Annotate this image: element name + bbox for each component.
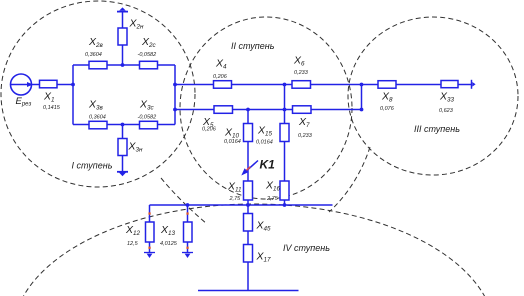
- svg-text:0,076: 0,076: [380, 106, 395, 112]
- extra dashed arc left: [161, 178, 207, 224]
- svg-text:II ступень: II ступень: [231, 41, 275, 51]
- ground X13: [182, 252, 193, 254]
- wire bridge bottom: [73, 124, 175, 126]
- branch X13: [187, 205, 189, 222]
- svg-text:0,0164: 0,0164: [224, 139, 241, 145]
- svg-text:2,75: 2,75: [266, 196, 279, 202]
- svg-text:X17: X17: [256, 251, 272, 264]
- resistor X33: [441, 81, 458, 88]
- svg-text:X3с: X3с: [139, 99, 155, 112]
- wire source to X1: [32, 84, 40, 86]
- bottom busbar: [198, 290, 299, 292]
- stage IV dashed circle: [13, 204, 495, 296]
- svg-text:X2с: X2с: [141, 36, 157, 49]
- svg-text:X12: X12: [125, 224, 141, 237]
- svg-text:X10: X10: [224, 127, 240, 140]
- svg-text:0,3604: 0,3604: [89, 115, 106, 121]
- svg-text:X2в: X2в: [88, 36, 104, 49]
- svg-text:0,233: 0,233: [294, 70, 309, 76]
- stage II top line: [175, 84, 362, 86]
- stage II bottom line: [175, 109, 362, 111]
- resistor X3в: [89, 121, 107, 129]
- branch X12: [149, 205, 151, 222]
- stage IV bus: [150, 204, 333, 206]
- end load arrow: [471, 80, 473, 89]
- resistor X2с: [140, 61, 158, 69]
- svg-text:12,5: 12,5: [127, 241, 139, 247]
- svg-text:X6: X6: [293, 55, 305, 68]
- svg-text:X3н: X3н: [128, 141, 144, 154]
- branch X45 X17: [247, 205, 249, 291]
- stage II dashed circle: [180, 17, 352, 199]
- ground X12: [144, 252, 155, 254]
- wire bridge right vertical: [174, 65, 176, 125]
- node at bridge left: [71, 83, 75, 87]
- resistor X8: [378, 81, 396, 89]
- svg-text:Eрез: Eрез: [16, 96, 32, 108]
- svg-text:I ступень: I ступень: [72, 161, 113, 171]
- branch X2н: [122, 45, 124, 65]
- wire bridge left vertical: [72, 65, 74, 125]
- resistor X2в: [89, 61, 107, 69]
- stage III line: [362, 84, 472, 86]
- svg-text:X33: X33: [439, 91, 455, 104]
- svg-text:K1: K1: [260, 158, 276, 172]
- wire X1 to bridge: [57, 84, 73, 86]
- stage III dashed circle: [348, 17, 518, 175]
- svg-text:X1: X1: [43, 91, 55, 104]
- svg-text:X13: X13: [160, 224, 176, 237]
- svg-text:0,623: 0,623: [439, 108, 454, 114]
- svg-text:X16: X16: [265, 180, 281, 193]
- vertical branch 2: X15, X16: [284, 85, 286, 206]
- svg-text:X8: X8: [381, 91, 393, 104]
- svg-text:X3в: X3в: [88, 99, 104, 112]
- svg-text:X2н: X2н: [129, 18, 145, 31]
- svg-text:0,206: 0,206: [213, 74, 228, 80]
- svg-text:0,233: 0,233: [298, 133, 313, 139]
- stage I dashed circle: [1, 1, 195, 187]
- junction dots stage II: [283, 83, 287, 87]
- svg-text:X11: X11: [227, 181, 242, 194]
- resistor X1: [40, 80, 58, 88]
- svg-text:-0,0582: -0,0582: [138, 115, 157, 121]
- resistor X3с: [140, 121, 158, 129]
- svg-text:0,1415: 0,1415: [43, 105, 61, 111]
- svg-text:-0,0582: -0,0582: [138, 52, 157, 58]
- source Eрез: [11, 74, 34, 95]
- svg-text:X7: X7: [298, 116, 310, 129]
- resistor X4: [214, 81, 232, 89]
- resistor X6: [292, 81, 311, 89]
- node bottom mid: [121, 123, 125, 127]
- svg-text:0,0164: 0,0164: [256, 140, 273, 146]
- svg-text:X45: X45: [256, 220, 272, 233]
- svg-text:IV ступень: IV ступень: [283, 243, 330, 253]
- svg-text:0,206: 0,206: [202, 127, 217, 133]
- vertical branch 1: X10, X11: [247, 110, 249, 206]
- extra dashed arc right: [329, 147, 370, 212]
- resistor X5: [214, 106, 233, 114]
- svg-text:2,75: 2,75: [229, 196, 242, 202]
- load arrow up: [117, 11, 128, 13]
- svg-text:X15: X15: [257, 125, 273, 138]
- svg-text:X4: X4: [215, 58, 227, 71]
- svg-text:4,0125: 4,0125: [160, 241, 178, 247]
- stage II/III vertical tie: [361, 85, 363, 110]
- K1 marker: [244, 161, 259, 174]
- svg-text:III ступень: III ступень: [414, 124, 460, 134]
- node top mid: [121, 63, 125, 67]
- branch X3н: [122, 125, 124, 139]
- load arrow down: [117, 171, 128, 173]
- resistor X7: [293, 106, 312, 114]
- svg-text:0,3604: 0,3604: [85, 52, 102, 58]
- wire bridge top: [73, 64, 175, 66]
